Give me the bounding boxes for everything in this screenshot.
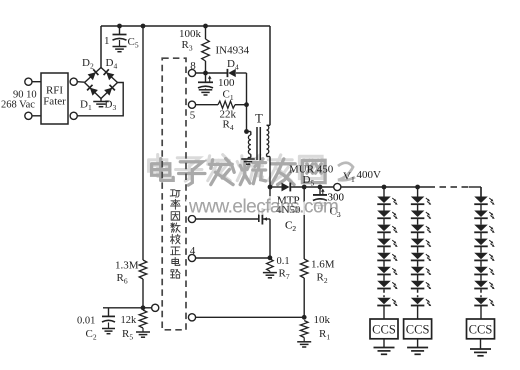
svg-text:0.01: 0.01 [77, 316, 95, 327]
capacitor C3 [313, 187, 345, 219]
svg-text:IN4934: IN4934 [216, 45, 250, 57]
label PFC text (功率因数校正电路) [170, 190, 180, 278]
wire top DC rail [101, 25, 270, 27]
ground CCS2 [407, 348, 428, 355]
terminal input bottom [25, 112, 32, 119]
svg-text:1.6M: 1.6M [311, 259, 335, 271]
wire pin4 [196, 257, 270, 259]
wire CCS1 gnd [383, 339, 385, 348]
watermark calligraphy [149, 155, 355, 186]
pin feedback [188, 314, 195, 321]
svg-text:300: 300 [328, 192, 345, 204]
terminal input top [25, 78, 32, 85]
node rail-C5 [117, 24, 122, 29]
svg-text:4N50: 4N50 [276, 204, 301, 216]
terminal RFI out bottom [70, 112, 77, 119]
svg-text:CCS: CCS [372, 323, 396, 337]
wire CCS2 gnd [417, 339, 419, 348]
terminal V1 400V [334, 169, 381, 191]
LED string 1 [377, 187, 397, 319]
svg-text:5: 5 [190, 110, 196, 122]
node string1 top [382, 185, 387, 190]
RFI filter box [41, 73, 68, 124]
pin 5 [188, 101, 195, 121]
svg-text:268 Vac: 268 Vac [1, 100, 35, 111]
svg-text:8: 8 [190, 60, 196, 72]
wire input top [32, 81, 41, 83]
wire node to C2 [103, 307, 143, 309]
watermark url [188, 197, 338, 218]
svg-text:0.1: 0.1 [277, 256, 290, 267]
wire gate [196, 218, 259, 220]
LED string 3 [474, 187, 494, 319]
terminal RFI out top [70, 78, 77, 85]
resistor R4 [218, 101, 237, 132]
label input voltage [1, 90, 37, 111]
LED string 2 [411, 187, 431, 319]
node source-R7 [268, 255, 273, 260]
ground R7 [263, 273, 277, 278]
pin 8 [188, 60, 196, 77]
diode D4 IN4934 [216, 45, 250, 78]
ground C2 [102, 329, 115, 334]
node pin8-R3C1 [203, 71, 208, 76]
transformer T primary winding [267, 26, 270, 187]
node R2 top [302, 185, 307, 190]
capacitor C2 [77, 308, 115, 342]
transformer core [257, 127, 260, 160]
node C3 top [318, 185, 323, 190]
ground C3 [313, 203, 327, 208]
resistor R7 [267, 256, 290, 281]
ground R5 [136, 332, 150, 337]
capacitor C1 [198, 73, 235, 102]
transistor Q1 MTP4N50 [259, 187, 301, 258]
wire RFI out top [77, 81, 84, 84]
wire RFI out bottom to bridge right [77, 83, 123, 116]
resistor R5 [121, 310, 147, 342]
wire feedback [196, 316, 305, 318]
svg-text:1.3M: 1.3M [115, 260, 139, 272]
wire to string 3 [480, 187, 482, 197]
ground aux winding [241, 159, 255, 164]
pin left [152, 304, 159, 311]
wire bridge top to rail [100, 26, 102, 68]
diode bridge D4 bridge [101, 57, 118, 83]
node drain [268, 185, 273, 190]
ground C1 [199, 90, 213, 95]
svg-text:400V: 400V [357, 169, 382, 181]
wire pin5 [196, 104, 218, 106]
label MTP 4N50 overlay [276, 195, 301, 234]
resistor R2 [300, 187, 334, 317]
capacitor C5 [104, 26, 139, 50]
wire input bottom [32, 115, 41, 117]
transformer T aux winding [247, 132, 251, 159]
svg-text:10k: 10k [314, 314, 331, 326]
svg-text:1: 1 [104, 35, 110, 47]
pin 4 [188, 245, 195, 262]
node bottom-left [141, 305, 146, 310]
ground R1 [297, 342, 311, 347]
node rail-R3 [203, 24, 208, 29]
svg-text:100: 100 [218, 77, 235, 89]
node string2 top [415, 185, 420, 190]
wire rail down-left branch [141, 24, 146, 308]
diode D5 MUR450 [270, 164, 334, 192]
svg-text:MUR 450: MUR 450 [289, 164, 334, 176]
svg-text:T: T [255, 112, 263, 126]
svg-text:Fater: Fater [43, 96, 66, 108]
wire R4 to node [235, 104, 247, 106]
svg-text:4: 4 [190, 245, 196, 257]
resistor R3 [179, 26, 209, 73]
ground CCS3 [470, 349, 491, 356]
ground C5 [113, 47, 127, 52]
node aux top [244, 129, 249, 134]
node R4-D4 [244, 102, 249, 107]
capacitor C3 overlay [313, 192, 345, 220]
wire D4 to transformer [246, 73, 248, 132]
wire CCS3 gnd [480, 339, 482, 349]
label T [255, 112, 263, 126]
svg-text:12k: 12k [121, 315, 138, 326]
CCS box 1 [370, 319, 398, 339]
pin gate [188, 215, 195, 222]
node divider [302, 315, 307, 320]
ground CCS1 [374, 348, 395, 355]
CCS box 2 [404, 319, 432, 339]
PFC controller box [162, 58, 186, 330]
svg-text:CCS: CCS [406, 323, 430, 337]
wire node to left pin [143, 307, 151, 309]
wire output rail [341, 186, 481, 188]
diode bridge D2 [82, 57, 101, 83]
resistor R1 [300, 314, 330, 342]
resistor R6 [115, 260, 147, 286]
wire pin8 [196, 72, 227, 74]
diode bridge D3 [101, 83, 118, 113]
svg-text:CCS: CCS [469, 323, 493, 337]
ground bridge [93, 99, 109, 107]
CCS box 3 [467, 319, 495, 339]
diode bridge D1 [80, 83, 101, 113]
